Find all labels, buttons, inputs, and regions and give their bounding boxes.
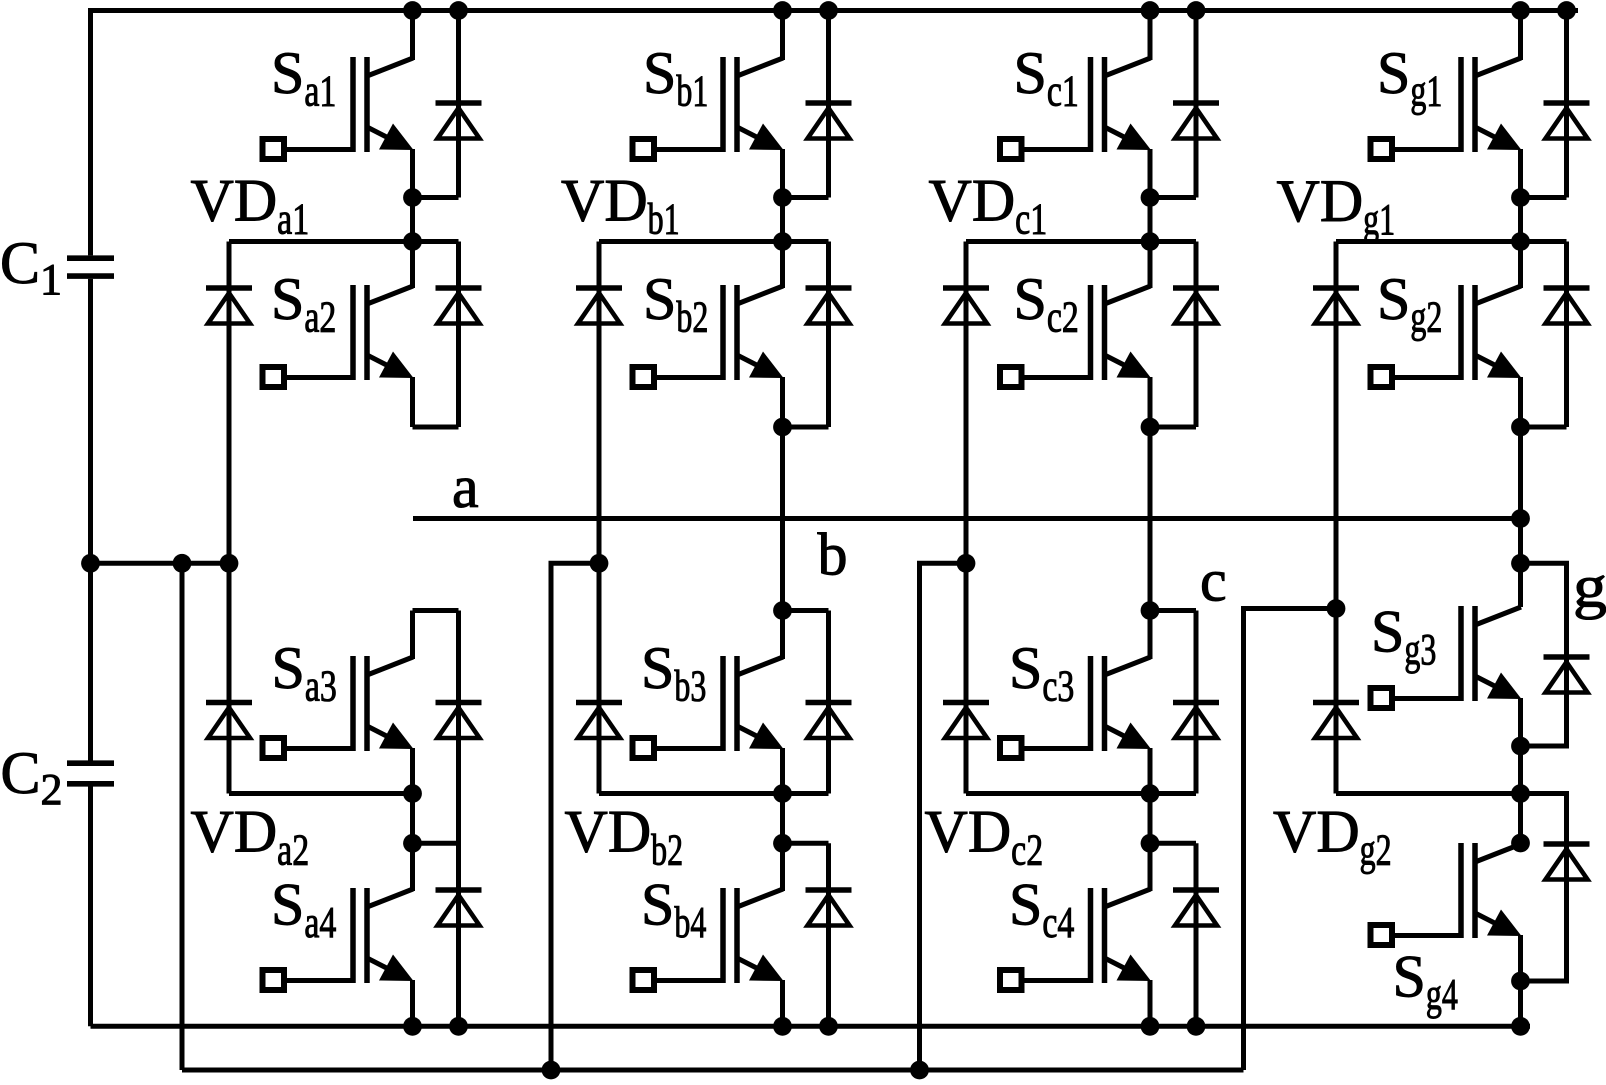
wire: leg b collector of Sb1 from top rail xyxy=(780,11,785,61)
diode Dc3 antiparallel to Sc3 xyxy=(1173,703,1219,739)
transistor Sg2 (IGBT) xyxy=(1371,285,1522,387)
wire: leg a Sa3 emitter down xyxy=(410,748,415,794)
label VD_a2 xyxy=(191,799,310,875)
wire: leg b clamp-top horizontal xyxy=(599,239,829,244)
wire: leg a Sa2 emitter down xyxy=(410,377,415,427)
diode VDa1 upper clamp xyxy=(206,288,252,324)
transistor Sg4 (IGBT) xyxy=(1371,843,1522,945)
wire: leg b midpoint column xyxy=(780,427,785,611)
wire: leg g antiparallel diode column row2 xyxy=(1564,242,1569,428)
transistor Sa3 (IGBT) xyxy=(263,656,414,758)
capacitor C2 xyxy=(67,763,114,784)
transistor Sc3 (IGBT) xyxy=(1000,656,1151,758)
wire: leg g Sg4 emitter down xyxy=(1518,935,1523,981)
node: leg a Sa1 emitter junction xyxy=(403,188,422,207)
wire: leg g Sg3 emitter to clamp junction xyxy=(1518,746,1523,794)
node: leg g clamp bottom junction xyxy=(1511,784,1530,803)
node: leg a Sa4 collector junction xyxy=(403,834,422,853)
wire: leg a clamp-top horizontal xyxy=(229,239,459,244)
node: leg c Sc3 emitter junction xyxy=(1141,784,1160,803)
wire: g output jog / Dg3 diode column xyxy=(1521,563,1567,746)
wire: neutral bus bottom rail xyxy=(182,1068,1244,1073)
node: leg b Sb2 emitter junction xyxy=(773,418,792,437)
transistor Sb3 (IGBT) xyxy=(633,656,784,758)
wire: leg g clamp column lower xyxy=(1334,609,1339,794)
label C1 xyxy=(0,230,62,304)
wire: leg b row4 jog to diode column xyxy=(783,841,829,846)
wire: leg g clamp-top horizontal xyxy=(1336,239,1567,244)
diode Db2 antiparallel to Sb2 xyxy=(806,288,852,324)
wire: leg b antiparallel diode column row4 xyxy=(826,843,831,1026)
label S_a1 xyxy=(271,40,336,116)
wire: leg c jog to antiparallel diode Dc1 xyxy=(1150,195,1196,200)
node: leg b top rail main tap xyxy=(773,1,792,20)
wire: negative DC bottom rail xyxy=(91,1024,1531,1029)
wire: leg g clamp column upper xyxy=(1334,242,1339,609)
transistor Sb4 (IGBT) xyxy=(633,888,784,990)
wire: leg c collector of Sc2 xyxy=(1148,242,1153,289)
svg-text:VDa2: VDa2 xyxy=(191,799,310,875)
diode Db4 antiparallel to Sb4 xyxy=(806,890,852,926)
label S_g1 xyxy=(1377,40,1442,116)
svg-text:b: b xyxy=(818,522,848,588)
wire: leg c antiparallel diode column row2 xyxy=(1194,242,1199,428)
wire: leg a jog to antiparallel diode Da1 xyxy=(413,195,459,200)
node: leg c bottom rail diode tap xyxy=(1187,1017,1206,1036)
svg-text:Sg1: Sg1 xyxy=(1377,40,1442,116)
wire: leg a collector of Sa4 xyxy=(410,843,415,891)
label S_c2 xyxy=(1014,266,1079,342)
transistor Sc4 (IGBT) xyxy=(1000,888,1151,990)
node: neutral at capacitor junction xyxy=(81,554,100,573)
diode Dg4 antiparallel to Sg4 xyxy=(1544,844,1590,880)
wire: leg b antiparallel diode column row3 xyxy=(826,611,831,794)
wire: leg c clamp column upper xyxy=(964,242,969,564)
node: leg a clamp neutral junction xyxy=(220,554,239,573)
wire: leg g Sg1 emitter to junction xyxy=(1518,149,1523,198)
wire: leg a Sa1-Sa2 link xyxy=(410,198,415,242)
diode Da2 antiparallel to Sa2 xyxy=(436,288,482,324)
diode VDc2 lower clamp xyxy=(943,703,989,739)
label node g xyxy=(1573,554,1606,620)
diode Dg1 antiparallel to Sg1 xyxy=(1544,103,1590,139)
node: leg b Sb3 collector junction xyxy=(773,601,792,620)
svg-text:C1: C1 xyxy=(0,230,62,304)
wire: neutral midline to C2 xyxy=(88,563,93,761)
wire: leg b collector of Sb3 xyxy=(780,611,785,660)
wire: leg g row2 jog to diode column xyxy=(1521,425,1567,430)
wire: leg c midpoint column xyxy=(1148,427,1153,611)
label VD_b2 xyxy=(565,799,684,875)
wire: leg b antiparallel diode column row2 xyxy=(826,242,831,428)
wire: leg g collector of Sg2 xyxy=(1518,242,1523,289)
wire: leg b Sb1 emitter to junction xyxy=(780,149,785,198)
label node a xyxy=(452,454,479,520)
transistor Sc1 (IGBT) xyxy=(1000,57,1151,159)
diode Da1 antiparallel to Sa1 xyxy=(436,103,482,139)
svg-text:Sb2: Sb2 xyxy=(643,266,708,342)
label node c xyxy=(1200,548,1227,614)
wire: leg a Sa4 emitter down xyxy=(410,980,415,1026)
wire: leg g to bottom rail xyxy=(1518,981,1523,1026)
node: leg b top rail diode tap xyxy=(819,1,838,20)
label S_c4 xyxy=(1009,872,1074,948)
svg-text:g: g xyxy=(1573,554,1606,620)
wire: leg b clamp bottom horizontal xyxy=(599,791,829,796)
node: leg c clamp neutral junction xyxy=(957,554,976,573)
wire: leg a row4 jog to diode column xyxy=(413,841,459,846)
wire: leg b jog to antiparallel diode Db1 xyxy=(783,195,829,200)
wire: leg g jog to antiparallel diode Dg1 xyxy=(1521,195,1567,200)
svg-text:VDg1: VDg1 xyxy=(1277,168,1396,244)
wire: leg c Sc2 emitter down xyxy=(1148,377,1153,427)
node: leg g Sg3 emitter junction xyxy=(1511,737,1530,756)
wire: leg a Sa3-Sa4 link xyxy=(410,794,415,844)
wire: leg c Sc3-Sc4 link xyxy=(1148,794,1153,844)
node: leg c Sc1 emitter junction xyxy=(1141,188,1160,207)
wire: leg b clamp column lower xyxy=(597,563,602,793)
node: leg c top rail main tap xyxy=(1141,1,1160,20)
transistor Sg3 (IGBT) xyxy=(1371,606,1522,708)
wire: leg b row3 jog to diode column xyxy=(783,608,829,613)
diode VDg2 lower clamp xyxy=(1313,703,1359,739)
wire: leg c clamp bottom horizontal xyxy=(966,791,1196,796)
wire: leg c clamp neutral feed xyxy=(920,563,967,1070)
node: leg b clamp-top junction xyxy=(773,232,792,251)
node: leg b Sb4 collector junction xyxy=(773,834,792,853)
transistor Sg1 (IGBT) xyxy=(1371,57,1522,159)
node: leg c top rail diode tap xyxy=(1187,1,1206,20)
wire: leg c Sc3 emitter down xyxy=(1148,748,1153,794)
diode Da4 antiparallel to Sa4 xyxy=(436,890,482,926)
wire: leg b collector of Sb2 xyxy=(780,242,785,289)
svg-text:Sc3: Sc3 xyxy=(1009,635,1074,711)
node: leg g Sg4 emitter junction xyxy=(1511,972,1530,991)
wire: leg c row2 jog to diode column xyxy=(1150,425,1196,430)
svg-text:Sa4: Sa4 xyxy=(271,872,336,948)
svg-text:Sc4: Sc4 xyxy=(1009,872,1074,948)
wire: leg c antiparallel diode column row3 xyxy=(1194,611,1199,794)
node: leg b neutral bus tap xyxy=(542,1061,561,1080)
label S_g2 xyxy=(1377,266,1442,342)
label VD_a1 xyxy=(191,168,310,244)
node: leg a Sa3 emitter junction xyxy=(403,784,422,803)
node: leg g Sg2 emitter junction xyxy=(1511,418,1530,437)
wire: leg c row4 jog to diode column xyxy=(1150,841,1196,846)
svg-text:Sb4: Sb4 xyxy=(641,872,706,948)
svg-text:Sc2: Sc2 xyxy=(1014,266,1079,342)
wire: leg g Sg3 emitter down xyxy=(1518,698,1523,746)
node: leg g clamp-top junction xyxy=(1511,232,1530,251)
wire: leg b Sb3-Sb4 link xyxy=(780,794,785,844)
wire: leg b Sb3 emitter down xyxy=(780,748,785,794)
svg-text:Sg3: Sg3 xyxy=(1371,599,1436,675)
wire: leg g clamp bottom horizontal xyxy=(1336,791,1567,796)
diode Db1 antiparallel to Sb1 xyxy=(806,103,852,139)
wire: leg b collector of Sb4 xyxy=(780,843,785,891)
label C2 xyxy=(1,740,63,814)
node: phase a line termination on leg g xyxy=(1511,509,1530,528)
wire: leg c collector of Sc3 xyxy=(1148,611,1153,660)
wire: leg a collector of Sa2 xyxy=(410,242,415,289)
wire: leg c clamp-top horizontal xyxy=(966,239,1196,244)
svg-text:Sg2: Sg2 xyxy=(1377,266,1442,342)
wire: C2 to bottom rail xyxy=(88,786,93,1026)
node: leg a clamp-top junction xyxy=(403,232,422,251)
node: leg a bottom rail main tap xyxy=(403,1017,422,1036)
svg-text:VDb1: VDb1 xyxy=(561,168,680,244)
diode VDg1 upper clamp xyxy=(1313,288,1359,324)
wire: leg a antiparallel diode column row2 xyxy=(456,242,461,428)
wire: leg b Sb4 emitter down xyxy=(780,980,785,1026)
wire: leg b row2 jog to diode column xyxy=(783,425,829,430)
node: leg c Sc2 emitter junction xyxy=(1141,418,1160,437)
wire: leg a antiparallel diode column row3-row4 xyxy=(456,611,461,1027)
transistor Sb2 (IGBT) xyxy=(633,285,784,387)
wire: leg g midpoint column xyxy=(1518,427,1523,607)
wire: positive DC top rail xyxy=(91,8,1579,13)
node: leg c bottom rail main tap xyxy=(1141,1017,1160,1036)
node: leg b Sb3 emitter junction xyxy=(773,784,792,803)
node: leg g output junction xyxy=(1511,554,1530,573)
svg-text:C2: C2 xyxy=(1,740,63,814)
label S_b4 xyxy=(641,872,706,948)
diode Db3 antiparallel to Sb3 xyxy=(806,703,852,739)
wire: leg a clamp column upper xyxy=(227,242,232,564)
label VD_c1 xyxy=(929,168,1048,244)
wire: leg g Sg1-Sg2 link xyxy=(1518,198,1523,242)
node: leg a top rail diode tap xyxy=(449,1,468,20)
diode VDb2 lower clamp xyxy=(576,703,622,739)
transistor Sc2 (IGBT) xyxy=(1000,285,1151,387)
svg-text:Sb3: Sb3 xyxy=(641,635,706,711)
wire: leg b Sb2 emitter down xyxy=(780,377,785,427)
node: leg b clamp neutral junction xyxy=(590,554,609,573)
diode Dc1 antiparallel to Sc1 xyxy=(1173,103,1219,139)
wire: leg a row2 jog to diode column xyxy=(413,425,459,430)
wire: leg a Sa1 emitter to junction xyxy=(410,149,415,198)
node: leg c neutral bus tap xyxy=(910,1061,929,1080)
diode VDa2 lower clamp xyxy=(206,703,252,739)
diode Dg3 antiparallel to Sg3 xyxy=(1544,657,1590,693)
label S_a3 xyxy=(272,635,337,711)
label S_g4 xyxy=(1393,944,1458,1020)
wire: neutral midline C1/C2 junction to leg a clamp xyxy=(91,561,230,566)
node: leg g top rail diode tap xyxy=(1557,1,1576,20)
wire: leg g Sg2 emitter down xyxy=(1518,377,1523,427)
label VD_b1 xyxy=(561,168,680,244)
svg-text:VDg2: VDg2 xyxy=(1273,799,1392,875)
label S_c1 xyxy=(1014,40,1079,116)
svg-text:VDa1: VDa1 xyxy=(191,168,310,244)
wire: leg g clamp feed from neutral bus xyxy=(1244,609,1337,1071)
wire: leg a clamp column lower xyxy=(227,563,232,793)
wire: leg c Sc1-Sc2 link xyxy=(1148,198,1153,242)
wire: leg b clamp neutral feed xyxy=(551,563,599,1070)
label S_b1 xyxy=(643,40,708,116)
node: leg a top rail main tap xyxy=(403,1,422,20)
transistor Sb1 (IGBT) xyxy=(633,57,784,159)
wire: leg b Sb1-Sb2 link xyxy=(780,198,785,242)
diode Da3 antiparallel to Sa3 xyxy=(436,703,482,739)
wire: leg g collector of Sg1 from top rail xyxy=(1518,11,1523,61)
wire: leg a row3 staircase left vertical xyxy=(410,611,415,660)
transistor Sa1 (IGBT) xyxy=(263,57,414,159)
node: leg b bottom rail main tap xyxy=(773,1017,792,1036)
label S_a4 xyxy=(271,872,336,948)
svg-text:a: a xyxy=(452,454,479,520)
wire: leg g collector of Sg4 xyxy=(1518,794,1523,845)
wire: leg c Sc4 emitter down xyxy=(1148,980,1153,1026)
svg-text:VDc1: VDc1 xyxy=(929,168,1048,244)
node: neutral drop junction xyxy=(173,554,192,573)
transistor Sa4 (IGBT) xyxy=(263,888,414,990)
wire: neutral drop from midline to neutral bus xyxy=(180,563,185,1070)
wire: leg c antiparallel diode column row1 xyxy=(1194,11,1199,198)
diode Dg2 antiparallel to Sg2 xyxy=(1544,288,1590,324)
wire: C1 to neutral midline xyxy=(88,279,93,563)
wire: leg c collector of Sc4 xyxy=(1148,843,1153,891)
svg-text:Sc1: Sc1 xyxy=(1014,40,1079,116)
node: leg c Sc4 collector junction xyxy=(1141,834,1160,853)
svg-text:Sa2: Sa2 xyxy=(271,266,336,342)
label node b xyxy=(818,522,848,588)
wire: leg c clamp column lower xyxy=(964,563,969,793)
label S_b3 xyxy=(641,635,706,711)
wire: leg b antiparallel diode column row1 xyxy=(826,11,831,198)
node: leg g Sg4 collector junction xyxy=(1511,834,1530,853)
label S_b2 xyxy=(643,266,708,342)
label VD_c2 xyxy=(925,799,1044,875)
node: leg b Sb1 emitter junction xyxy=(773,188,792,207)
wire: leg g antiparallel diode column row1 xyxy=(1564,11,1569,198)
wire: left DC column upper (top rail to C1) xyxy=(88,8,93,255)
wire: leg a clamp bottom horizontal xyxy=(229,791,413,796)
node: leg g Sg1 emitter junction xyxy=(1511,188,1530,207)
node: leg g top rail main tap xyxy=(1511,1,1530,20)
wire: leg a antiparallel diode column row1 xyxy=(456,11,461,198)
wire: leg c collector of Sc1 from top rail xyxy=(1148,11,1153,61)
label VD_g2 xyxy=(1273,799,1392,875)
wire: leg c Sc1 emitter to junction xyxy=(1148,149,1153,198)
wire: phase a output line xyxy=(413,516,1521,521)
wire: Dg4 diode column with jogs xyxy=(1521,794,1567,982)
diode Dc2 antiparallel to Sc2 xyxy=(1173,288,1219,324)
wire: leg a collector of Sa1 from top rail xyxy=(410,11,415,61)
diode VDc1 upper clamp xyxy=(943,288,989,324)
svg-text:Sa3: Sa3 xyxy=(272,635,337,711)
node: leg b bottom rail diode tap xyxy=(819,1017,838,1036)
node: leg c clamp-top junction xyxy=(1141,232,1160,251)
label S_c3 xyxy=(1009,635,1074,711)
svg-text:VDb2: VDb2 xyxy=(565,799,684,875)
node: leg c Sc3 collector junction xyxy=(1141,601,1160,620)
svg-text:Sa1: Sa1 xyxy=(271,40,336,116)
transistor Sa2 (IGBT) xyxy=(263,285,414,387)
svg-text:VDc2: VDc2 xyxy=(925,799,1044,875)
node: leg g clamp neutral junction xyxy=(1327,599,1346,618)
wire: leg b clamp column upper xyxy=(597,242,602,564)
diode Dc4 antiparallel to Sc4 xyxy=(1173,890,1219,926)
capacitor C1 xyxy=(67,258,114,276)
diode VDb1 upper clamp xyxy=(576,288,622,324)
svg-text:c: c xyxy=(1200,548,1227,614)
node: leg g bottom rail end xyxy=(1511,1017,1530,1036)
svg-text:Sb1: Sb1 xyxy=(643,40,708,116)
wire: leg c row3 jog to diode column xyxy=(1150,608,1196,613)
svg-text:Sg4: Sg4 xyxy=(1393,944,1458,1020)
label VD_g1 xyxy=(1277,168,1396,244)
node: leg a bottom rail diode tap xyxy=(449,1017,468,1036)
wire: leg c antiparallel diode column row4 xyxy=(1194,843,1199,1026)
label S_g3 xyxy=(1371,599,1436,675)
label S_a2 xyxy=(271,266,336,342)
wire: leg a row3 staircase horizontal xyxy=(413,608,459,613)
